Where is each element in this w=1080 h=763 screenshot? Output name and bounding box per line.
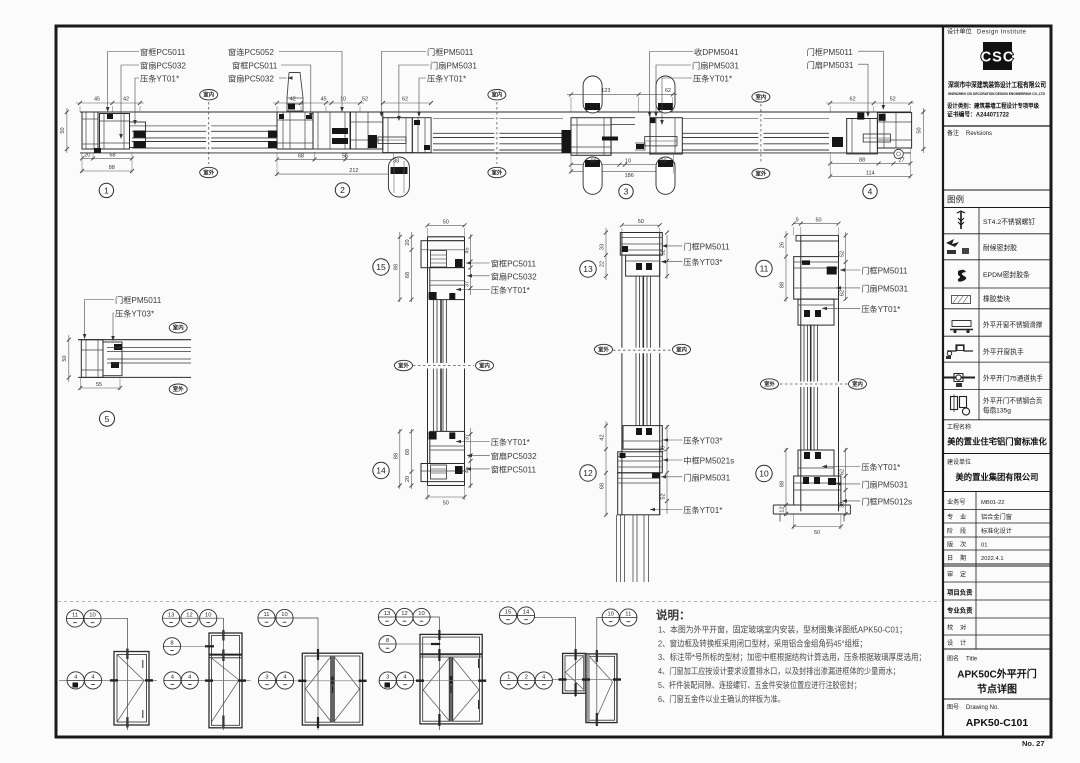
svg-text:设计单位: 设计单位 bbox=[947, 28, 972, 36]
svg-text:20: 20 bbox=[405, 239, 411, 245]
svg-text:5、杆件装配间隙、连接螺钉、五金件安装位置应进行注胶密封；: 5、杆件装配间隙、连接螺钉、五金件安装位置应进行注胶密封； bbox=[658, 680, 861, 690]
svg-text:50: 50 bbox=[638, 219, 644, 225]
svg-text:对: 对 bbox=[960, 624, 966, 632]
door elevation 2 top marker circles 13 12 10 bbox=[216, 618, 223, 730]
svg-text:室内: 室内 bbox=[203, 91, 214, 99]
section 15 right dimensions 45 37 bbox=[470, 234, 472, 295]
svg-text:室外: 室外 bbox=[764, 380, 775, 388]
svg-text:门框PM5011: 门框PM5011 bbox=[683, 241, 730, 251]
section 11-10 right vertical edge bbox=[838, 235, 840, 511]
door elevation 1 top marker circles 11 10 bbox=[102, 618, 127, 730]
legend icon friction stay bbox=[952, 321, 971, 327]
svg-text:定: 定 bbox=[960, 571, 966, 579]
section 15-14 indoor oval bbox=[476, 360, 494, 370]
svg-text:68: 68 bbox=[600, 483, 606, 489]
svg-text:项目负责: 项目负责 bbox=[947, 588, 973, 597]
svg-text:88: 88 bbox=[393, 264, 399, 270]
svg-text:美的置业住宅铝门窗标准化: 美的置业住宅铝门窗标准化 bbox=[947, 437, 1047, 447]
svg-text:备注: 备注 bbox=[947, 129, 959, 137]
section 15 top dimension 50 bbox=[428, 224, 465, 226]
svg-text:88: 88 bbox=[393, 453, 399, 459]
detail 1 glazing bead and gaskets bbox=[130, 122, 146, 148]
section 11-10 outdoor oval bbox=[761, 379, 779, 389]
svg-text:压条YT03*: 压条YT03* bbox=[683, 436, 723, 446]
section 15 left dimensions 20 68 88 bbox=[411, 232, 413, 302]
svg-text:外平开窗不锈钢滑撑: 外平开窗不锈钢滑撑 bbox=[983, 320, 1043, 329]
project section divider bbox=[943, 453, 1051, 455]
legend icon window handle bbox=[947, 345, 973, 351]
door elevation 3 frame bbox=[302, 653, 362, 725]
svg-text:212: 212 bbox=[349, 168, 358, 174]
svg-text:15: 15 bbox=[505, 610, 511, 616]
svg-text:室外: 室外 bbox=[173, 385, 184, 393]
detail 1 top dimension 45 42 bbox=[79, 106, 81, 112]
detail 3 door leaf tube above left bbox=[583, 76, 602, 113]
svg-text:3、标注带*号所标的型材；加密中框根据结构计算选用，压条根据: 3、标注带*号所标的型材；加密中框根据结构计算选用，压条根据玻璃厚度选用； bbox=[658, 652, 926, 662]
svg-text:52: 52 bbox=[839, 251, 845, 257]
section 13 number circle bbox=[580, 261, 596, 277]
section 15-14 break dashed line bbox=[413, 365, 474, 367]
svg-text:10: 10 bbox=[759, 469, 769, 479]
section 15 head cap bbox=[428, 240, 465, 242]
svg-text:EPDM密封胶条: EPDM密封胶条 bbox=[983, 270, 1030, 279]
section 12 right dimensions 68 52 bbox=[666, 425, 668, 514]
detail 3 left door sash bbox=[571, 118, 611, 156]
svg-text:42: 42 bbox=[290, 97, 296, 103]
door elevation 2 cut marker circles 4 4 bbox=[164, 672, 181, 689]
svg-text:次: 次 bbox=[960, 541, 966, 549]
CSC logo bbox=[983, 42, 1012, 70]
svg-text:压条YT01*: 压条YT01* bbox=[491, 437, 531, 447]
svg-text:窗框PC5011: 窗框PC5011 bbox=[232, 61, 278, 71]
svg-text:图号: 图号 bbox=[947, 704, 959, 711]
svg-text:62: 62 bbox=[665, 88, 671, 94]
revisions row divider bbox=[943, 125, 1051, 127]
svg-text:门框PM5011: 门框PM5011 bbox=[807, 47, 854, 57]
svg-text:建设单位: 建设单位 bbox=[947, 458, 971, 466]
svg-text:业务号: 业务号 bbox=[947, 498, 966, 506]
detail 4 bottom dimension 88 27 bbox=[830, 162, 910, 164]
svg-text:室外: 室外 bbox=[756, 169, 767, 177]
svg-text:压条YT01*: 压条YT01* bbox=[427, 74, 467, 84]
svg-text:88: 88 bbox=[660, 159, 666, 165]
svg-text:Title: Title bbox=[966, 657, 978, 663]
section 11 top dimensions 9 50 bbox=[794, 223, 839, 225]
svg-text:中框PM5021s: 中框PM5021s bbox=[683, 456, 734, 466]
svg-text:2: 2 bbox=[340, 185, 345, 195]
detail 4 bottom dimension 114 bbox=[830, 175, 910, 177]
svg-text:压条YT03*: 压条YT03* bbox=[115, 309, 155, 319]
svg-text:3: 3 bbox=[386, 675, 389, 681]
detail 4 glazing gasket end bbox=[832, 137, 843, 147]
legend icon rubber block bbox=[952, 296, 971, 304]
indoor oval break 2-3 bbox=[488, 90, 506, 100]
svg-text:52: 52 bbox=[362, 97, 368, 103]
section 13 left dimensions 33 22 bbox=[605, 228, 607, 280]
door elevation 4 frame bbox=[420, 634, 482, 724]
door elevation 5 top marker circles 10 11 bbox=[597, 618, 603, 727]
svg-text:室内: 室内 bbox=[852, 380, 863, 388]
section 12 lower glass continuation lines bbox=[616, 515, 618, 582]
detail 1 left vertical dimension 50 bbox=[66, 108, 68, 153]
svg-text:门框PM5011: 门框PM5011 bbox=[115, 295, 162, 305]
section 14 number circle bbox=[373, 462, 389, 478]
detail 5 glazing bead bbox=[103, 342, 122, 376]
section 11-10 glass lines bbox=[803, 325, 805, 450]
svg-text:每扇135g: 每扇135g bbox=[983, 406, 1011, 415]
svg-text:节点详图: 节点详图 bbox=[977, 683, 1017, 696]
svg-text:68: 68 bbox=[298, 153, 304, 159]
door elevation 5 window leaf bbox=[563, 653, 586, 693]
door elevation 3 cut marker circles 3 4 bbox=[258, 672, 275, 689]
svg-text:版: 版 bbox=[947, 541, 953, 549]
svg-text:CSC: CSC bbox=[981, 50, 1015, 66]
svg-text:门扇PM5031: 门扇PM5031 bbox=[861, 283, 908, 293]
svg-text:50: 50 bbox=[60, 127, 66, 133]
svg-text:11: 11 bbox=[72, 613, 78, 619]
section 15-14 right vertical edge bbox=[464, 237, 466, 486]
svg-text:窗扇PC5032: 窗扇PC5032 bbox=[491, 271, 537, 281]
svg-text:10: 10 bbox=[418, 611, 424, 617]
section 14 frame block bbox=[421, 464, 465, 482]
section 14 bottom cap bbox=[428, 481, 465, 483]
svg-text:50: 50 bbox=[814, 530, 820, 536]
svg-text:窗扇PC5032: 窗扇PC5032 bbox=[228, 74, 274, 84]
svg-text:深圳市中深建筑装饰设计工程有限公司: 深圳市中深建筑装饰设计工程有限公司 bbox=[948, 80, 1046, 89]
section 10 number circle bbox=[756, 465, 772, 481]
svg-text:专: 专 bbox=[947, 513, 953, 521]
legend icon screw bbox=[960, 212, 962, 229]
svg-text:计: 计 bbox=[960, 639, 966, 647]
door elevation 1 frame bbox=[114, 652, 149, 726]
title block left border bbox=[942, 26, 944, 737]
svg-text:11: 11 bbox=[625, 612, 631, 618]
detail 5 top edge line bbox=[78, 339, 191, 341]
svg-text:2: 2 bbox=[525, 675, 528, 681]
detail 3 number circle bbox=[619, 184, 633, 198]
svg-text:压条YT01*: 压条YT01* bbox=[140, 74, 180, 84]
svg-text:图名: 图名 bbox=[947, 655, 959, 663]
svg-text:压条YT03*: 压条YT03* bbox=[683, 257, 723, 267]
svg-text:55: 55 bbox=[96, 382, 102, 388]
svg-text:外平开窗执手: 外平开窗执手 bbox=[983, 347, 1024, 356]
door elevation 3 cut line bbox=[259, 680, 366, 682]
section 11-10 indoor oval bbox=[849, 379, 867, 389]
section 11-10 break dashed line bbox=[780, 383, 848, 385]
section 13 sash bbox=[626, 255, 660, 276]
section 15-14 outdoor oval bbox=[395, 360, 413, 370]
svg-text:50: 50 bbox=[815, 218, 821, 224]
svg-text:门框PM5011: 门框PM5011 bbox=[861, 266, 908, 276]
section 14 left dimensions 68 20 88 bbox=[411, 429, 413, 489]
indoor oval break 1-2 bbox=[200, 90, 218, 100]
svg-text:门扇PM5031: 门扇PM5031 bbox=[861, 479, 908, 489]
detail 3 door leaf tube below left bbox=[583, 157, 602, 194]
detail 4 number circle bbox=[863, 184, 877, 198]
separator dotted line bbox=[58, 601, 941, 603]
svg-text:门扇PM5031: 门扇PM5031 bbox=[683, 472, 730, 482]
svg-text:段: 段 bbox=[960, 527, 966, 535]
svg-text:APK50-C101: APK50-C101 bbox=[966, 717, 1029, 729]
detail 4 drainage circle bbox=[894, 149, 903, 158]
svg-text:12: 12 bbox=[186, 612, 192, 618]
door elevation 3 hinge ticks bbox=[317, 649, 319, 660]
svg-text:5: 5 bbox=[105, 414, 110, 424]
section 14 bottom dimension 50 bbox=[428, 496, 465, 498]
section 13 top dimension 50 bbox=[622, 224, 660, 226]
door elevation 4 cut line bbox=[380, 680, 483, 682]
svg-text:10: 10 bbox=[89, 613, 95, 619]
door elevation 1 swing lines bbox=[117, 655, 144, 681]
detail 1 number circle bbox=[99, 183, 113, 197]
svg-text:15: 15 bbox=[376, 262, 386, 272]
svg-text:88: 88 bbox=[780, 282, 786, 288]
detail 5 number circle bbox=[100, 411, 115, 426]
door elevation 2 transom bbox=[209, 654, 242, 656]
svg-text:88: 88 bbox=[780, 481, 786, 487]
svg-text:MB01-22: MB01-22 bbox=[981, 500, 1005, 506]
top band top edge line bbox=[80, 111, 911, 113]
detail 3 middle connector bbox=[611, 117, 635, 119]
svg-text:50: 50 bbox=[443, 501, 449, 507]
svg-text:Revisions: Revisions bbox=[966, 131, 992, 137]
svg-text:窗框PC5011: 窗框PC5011 bbox=[491, 464, 537, 474]
detail 5 frame bbox=[81, 340, 103, 378]
svg-text:窗框PC5011: 窗框PC5011 bbox=[491, 259, 537, 269]
svg-text:室外: 室外 bbox=[398, 361, 409, 369]
svg-text:外平开门75通道执手: 外平开门75通道执手 bbox=[983, 374, 1043, 383]
svg-text:证书编号：A244071722: 证书编号：A244071722 bbox=[947, 111, 1010, 119]
svg-text:室外: 室外 bbox=[492, 168, 503, 176]
glass pane lines segment B door bbox=[433, 118, 563, 120]
section 13-12 right vertical edge bbox=[659, 233, 661, 515]
door elevation 2 cut line bbox=[164, 680, 251, 682]
detail 3 top dimension 123 62 bbox=[567, 93, 677, 95]
svg-text:186: 186 bbox=[625, 173, 634, 179]
svg-text:68: 68 bbox=[405, 272, 411, 278]
svg-text:室内: 室内 bbox=[173, 324, 184, 332]
detail 3 door leaf tube below right bbox=[656, 157, 675, 194]
svg-text:62: 62 bbox=[850, 97, 856, 103]
svg-text:室外: 室外 bbox=[203, 168, 214, 176]
door elevation 4 cut marker circles 3 4 bbox=[379, 672, 396, 689]
detail 2 top dimension 42 45 10 52 bbox=[273, 102, 364, 104]
svg-text:No. 27: No. 27 bbox=[1022, 739, 1045, 748]
svg-text:27: 27 bbox=[898, 157, 904, 163]
door elevation 4 transom bbox=[420, 653, 482, 655]
door elevation 3 mullion bbox=[331, 656, 335, 722]
section 11 right dimensions 52 62 bbox=[845, 232, 847, 300]
section 12 number circle bbox=[580, 465, 596, 481]
svg-text:期: 期 bbox=[960, 554, 966, 562]
break white gaps in band bbox=[206, 113, 211, 152]
section 11 number circle bbox=[756, 260, 772, 276]
svg-text:88: 88 bbox=[591, 159, 597, 165]
door elevation 1 cut line bbox=[59, 679, 157, 681]
svg-text:3: 3 bbox=[624, 187, 629, 197]
section 13 head frame bbox=[622, 232, 660, 234]
legend header divider bbox=[943, 189, 1051, 191]
top band bottom edge line bbox=[80, 152, 911, 154]
detail 5 outdoor oval bbox=[169, 384, 187, 394]
section 11 head frame bbox=[794, 257, 839, 300]
svg-text:50: 50 bbox=[62, 355, 68, 361]
svg-text:门框PM5011: 门框PM5011 bbox=[427, 47, 474, 57]
detail 4 door frame bbox=[877, 113, 911, 148]
detail 4 right vertical dimension 50 bbox=[922, 108, 924, 153]
detail 3 bottom dimension 88 10 88 bbox=[571, 164, 673, 166]
section 11 top cap bbox=[796, 235, 839, 241]
detail 5 left vertical dimension 50 bbox=[68, 335, 70, 382]
detail 2 bottom dimension 68 56 88 bbox=[277, 158, 394, 160]
svg-text:美的置业集团有限公司: 美的置业集团有限公司 bbox=[956, 472, 1039, 482]
legend icon hinge bbox=[951, 397, 958, 410]
svg-text:10: 10 bbox=[625, 159, 631, 165]
svg-text:22: 22 bbox=[600, 261, 606, 267]
detail 5 bottom edge line bbox=[78, 376, 191, 378]
svg-text:耐候密封胶: 耐候密封胶 bbox=[983, 243, 1017, 252]
section 11 left dimensions 26 88 bbox=[785, 231, 787, 302]
door elevation 1 cut marker circles 4 4 bbox=[67, 672, 84, 689]
svg-text:10: 10 bbox=[607, 612, 613, 618]
section 10 bottom dimension 50 bbox=[794, 526, 841, 528]
svg-text:窗框PC5011: 窗框PC5011 bbox=[140, 47, 186, 57]
svg-text:SHENZHEN CSI DECORATION DESIGN: SHENZHEN CSI DECORATION DESIGN ENGINEERI… bbox=[948, 91, 1045, 96]
section 12 door sash bbox=[618, 473, 660, 515]
svg-text:审: 审 bbox=[947, 571, 953, 579]
section 15-14 glass lines bbox=[432, 300, 434, 432]
legend row lines bbox=[943, 233, 1051, 235]
section 13-12 outdoor oval bbox=[595, 344, 613, 354]
svg-text:压条YT01*: 压条YT01* bbox=[491, 285, 531, 295]
svg-text:1: 1 bbox=[507, 675, 510, 681]
door elevation 5 left marker circles 15 14 bbox=[534, 617, 575, 697]
detail 2 door sash bbox=[383, 118, 413, 153]
section 13-12 indoor oval bbox=[673, 344, 691, 354]
section 13-12 break white gap bbox=[621, 348, 661, 354]
svg-text:20: 20 bbox=[84, 152, 90, 158]
section 12 middle frame PM5021s bbox=[618, 452, 663, 473]
door elevation 2 swing lines bbox=[212, 658, 240, 680]
detail 5 bottom dimension 55 bbox=[80, 387, 120, 389]
door elevation 4 hinge ticks bbox=[438, 630, 440, 640]
detail 5 indoor oval bbox=[169, 323, 187, 333]
svg-text:窗连PC5052: 窗连PC5052 bbox=[228, 47, 274, 57]
svg-text:01: 01 bbox=[981, 543, 987, 549]
svg-text:62: 62 bbox=[839, 290, 845, 296]
svg-text:外平开门不锈钢合页: 外平开门不锈钢合页 bbox=[983, 396, 1043, 405]
svg-text:窗扇PC5032: 窗扇PC5032 bbox=[491, 451, 537, 461]
door elevation 2 hinge ticks bbox=[222, 630, 224, 641]
svg-text:校: 校 bbox=[947, 624, 953, 632]
svg-text:说明：: 说明： bbox=[656, 608, 691, 622]
svg-text:设: 设 bbox=[947, 639, 953, 647]
svg-text:33: 33 bbox=[600, 244, 606, 250]
outdoor oval break 3-4 bbox=[752, 168, 770, 178]
detail 2 door leaf tube below bbox=[388, 157, 409, 197]
svg-text:11: 11 bbox=[760, 264, 769, 274]
svg-text:室内: 室内 bbox=[676, 345, 687, 353]
svg-text:门扇PM5031: 门扇PM5031 bbox=[430, 61, 477, 71]
section 10 sill extension bbox=[773, 504, 850, 506]
door elevation 4 top marker circles 13 12 10 bbox=[430, 617, 440, 730]
door elevation 2 frame bbox=[209, 633, 242, 728]
section 15-14 break white gap bbox=[426, 363, 466, 369]
outdoor oval break 1-2 bbox=[200, 167, 218, 177]
svg-text:68: 68 bbox=[405, 449, 411, 455]
section 11-10 left vertical edge bbox=[800, 235, 802, 511]
outdoor oval break 2-3 bbox=[488, 167, 506, 177]
svg-text:45: 45 bbox=[94, 97, 100, 103]
svg-text:13: 13 bbox=[583, 264, 593, 274]
svg-text:门扇PM5031: 门扇PM5031 bbox=[692, 61, 739, 71]
drawing number divider bbox=[943, 698, 1051, 700]
info table vertical divider bbox=[975, 492, 977, 650]
svg-text:8: 8 bbox=[170, 641, 173, 647]
svg-text:4、门窗加工应按设计要求设置排水口，以及封排出渗漏进框体的少: 4、门窗加工应按设计要求设置排水口，以及封排出渗漏进框体的少量雨水； bbox=[658, 666, 900, 676]
svg-text:1、本图为外平开窗，固定玻璃室内安装，型材图集详图纸APK5: 1、本图为外平开窗，固定玻璃室内安装，型材图集详图纸APK50-C01； bbox=[658, 625, 907, 635]
svg-text:12: 12 bbox=[401, 611, 407, 617]
detail 2 door frame bbox=[351, 112, 383, 149]
detail 2 door sash dimension 62 bbox=[383, 102, 431, 104]
section 10 right dimensions 62 36 bbox=[845, 448, 847, 516]
legend icon door handle bbox=[944, 377, 975, 379]
section 10 bottom frame bbox=[794, 476, 841, 505]
svg-text:12: 12 bbox=[780, 506, 786, 512]
svg-text:88: 88 bbox=[859, 157, 865, 163]
svg-text:业: 业 bbox=[960, 513, 966, 521]
detail 2 pressure strip bbox=[412, 118, 431, 153]
legend table divider column bbox=[978, 208, 980, 420]
svg-text:室内: 室内 bbox=[479, 361, 490, 369]
section 11 sash bbox=[798, 299, 834, 325]
svg-text:专业负责: 专业负责 bbox=[947, 606, 973, 615]
detail 1 window frame jamb bbox=[82, 112, 98, 149]
svg-text:APK50C外平开门: APK50C外平开门 bbox=[957, 668, 1036, 681]
door elevation 3 swing lines right bbox=[335, 657, 360, 689]
glass pane lines segment A window bbox=[130, 125, 277, 127]
section 15 sash bbox=[430, 268, 465, 300]
svg-text:设计类别：建筑幕墙工程设计专项甲级: 设计类别：建筑幕墙工程设计专项甲级 bbox=[947, 102, 1039, 110]
detail 4 door sash bbox=[847, 119, 878, 154]
svg-text:门框PM5012s: 门框PM5012s bbox=[861, 496, 912, 506]
svg-text:10: 10 bbox=[281, 612, 287, 618]
detail 3 door leaf tube above right bbox=[656, 76, 675, 113]
svg-text:14: 14 bbox=[376, 466, 386, 476]
section 11-10 break white gap bbox=[799, 382, 840, 388]
svg-text:压条YT01*: 压条YT01* bbox=[861, 304, 901, 314]
detail 5 glass lines bbox=[107, 347, 191, 349]
section 14 sash bbox=[430, 431, 465, 463]
svg-text:9: 9 bbox=[796, 218, 799, 224]
section 14 right dimensions 37 45 bbox=[470, 428, 472, 488]
svg-text:10: 10 bbox=[205, 612, 211, 618]
svg-text:室内: 室内 bbox=[492, 91, 503, 99]
svg-text:4: 4 bbox=[868, 187, 873, 197]
detail 2 door leaf tube above bbox=[287, 73, 303, 112]
door elevation 5 cut line bbox=[501, 679, 618, 681]
svg-text:52: 52 bbox=[890, 97, 896, 103]
door elevation 5 door leaf bbox=[586, 654, 617, 723]
svg-text:橡胶垫块: 橡胶垫块 bbox=[983, 294, 1010, 303]
svg-text:114: 114 bbox=[866, 170, 875, 176]
svg-text:68: 68 bbox=[661, 446, 667, 452]
section 12 upper sash bbox=[623, 426, 662, 450]
svg-text:工程名称: 工程名称 bbox=[947, 423, 971, 431]
svg-text:收DPM5041: 收DPM5041 bbox=[694, 47, 739, 57]
svg-text:6、门窗五金件以业主确认的样板为准。: 6、门窗五金件以业主确认的样板为准。 bbox=[658, 694, 785, 704]
section 13-12 left vertical edge bbox=[621, 233, 623, 515]
